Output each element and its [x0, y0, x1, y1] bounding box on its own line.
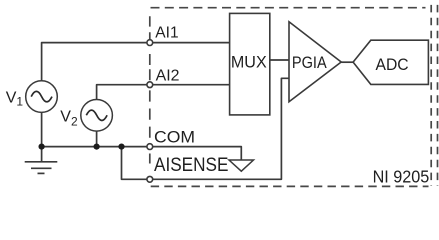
ADC block [353, 40, 428, 84]
junction dot (V2 bottom) [94, 144, 100, 150]
MUX block U1 [230, 13, 270, 115]
junction dot (V1/ground) [39, 144, 45, 150]
svg-text:ADC: ADC [376, 55, 409, 74]
svg-text:PGIA: PGIA [292, 53, 327, 72]
svg-text:V2: V2 [60, 108, 78, 128]
dashed module border NI 9205 [150, 5, 431, 187]
wire COM rail (ground rail to COM terminal and down to triangle) [42, 147, 242, 160]
terminal AI2 [147, 82, 153, 88]
op-amp PGIA [289, 22, 341, 102]
ground [25, 162, 58, 174]
svg-text:V1: V1 [6, 89, 24, 108]
wire AISENSE branch and feedback to PGIA [122, 78, 289, 179]
svg-text:NI 9205: NI 9205 [373, 167, 430, 187]
AISENSE connect triangle [229, 160, 254, 171]
svg-text:AISENSE: AISENSE [154, 155, 228, 176]
junction dot (AISENSE branch) [118, 144, 124, 150]
wire AI1 (V1 top to MUX) [42, 43, 230, 81]
voltage source V1 [26, 81, 58, 113]
wire PGIA to ADC [341, 61, 353, 63]
terminal AISENSE [147, 176, 153, 182]
wire V2 bottom [96, 131, 98, 147]
wire MUX to PGIA [270, 59, 289, 61]
wire AI2 (V2 top to MUX) [97, 85, 230, 100]
terminal AI1 [147, 40, 153, 46]
adjacent module dashed border [437, 5, 439, 186]
voltage source V2 [81, 100, 113, 132]
terminal COM [147, 144, 153, 150]
svg-text:AI1: AI1 [155, 23, 178, 41]
wire ground stem [41, 147, 43, 162]
svg-text:MUX: MUX [231, 53, 267, 71]
svg-text:COM: COM [154, 128, 195, 147]
wire V1 bottom [41, 112, 43, 146]
svg-text:AI2: AI2 [156, 67, 180, 85]
